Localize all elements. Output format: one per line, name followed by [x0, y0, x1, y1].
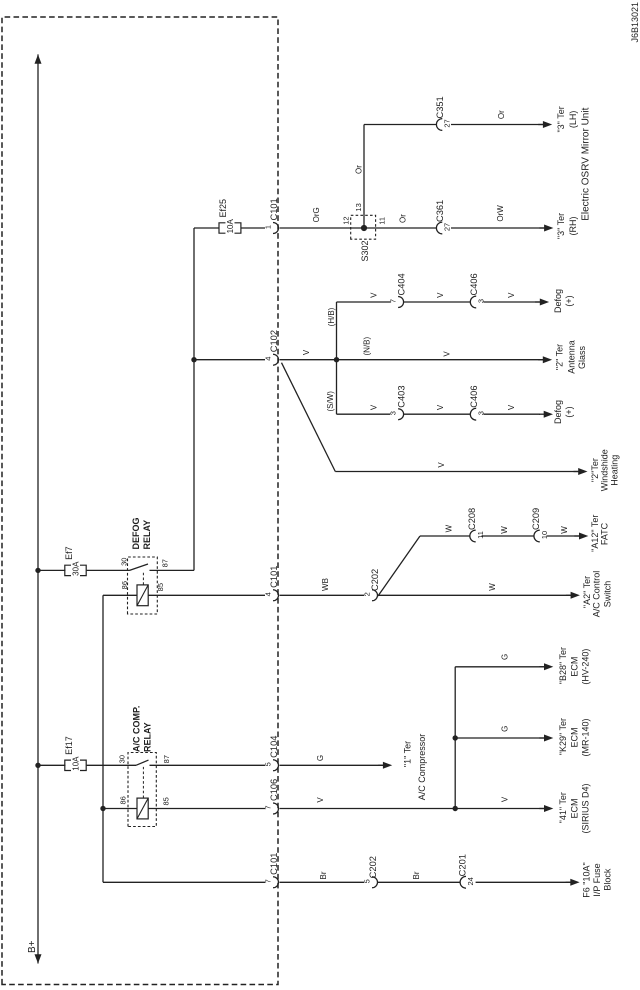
- svg-text:V: V: [500, 796, 509, 802]
- svg-text:5: 5: [363, 879, 372, 883]
- svg-text:Defog: Defog: [553, 289, 563, 313]
- svg-text:(LH): (LH): [568, 111, 578, 129]
- svg-text:Ef17: Ef17: [64, 736, 74, 755]
- svg-text:C361: C361: [435, 200, 445, 222]
- svg-text:"K29" Ter: "K29" Ter: [558, 718, 568, 755]
- svg-text:Windshide: Windshide: [600, 449, 610, 491]
- svg-text:4: 4: [264, 592, 273, 596]
- svg-text:30: 30: [118, 755, 127, 763]
- svg-text:V: V: [443, 351, 452, 357]
- svg-text:"3" Ter: "3" Ter: [556, 213, 566, 239]
- svg-text:RELAY: RELAY: [143, 722, 153, 752]
- svg-text:V: V: [370, 292, 379, 298]
- svg-text:Br: Br: [319, 871, 328, 879]
- svg-text:86: 86: [119, 796, 128, 804]
- svg-text:C404: C404: [396, 273, 406, 295]
- svg-text:W: W: [500, 526, 509, 534]
- svg-text:7: 7: [389, 299, 398, 303]
- svg-text:"2" Ter: "2" Ter: [555, 344, 565, 370]
- svg-text:V: V: [436, 404, 445, 410]
- svg-text:ECM: ECM: [570, 799, 580, 819]
- svg-text:(H/B): (H/B): [327, 307, 336, 326]
- svg-text:V: V: [507, 292, 516, 298]
- svg-text:1: 1: [264, 225, 273, 229]
- svg-text:G: G: [501, 654, 510, 660]
- svg-text:(N/B): (N/B): [362, 337, 371, 356]
- svg-text:10A: 10A: [226, 219, 235, 234]
- svg-text:C101: C101: [269, 853, 279, 875]
- svg-text:Heating: Heating: [609, 455, 619, 486]
- svg-text:Block: Block: [603, 868, 613, 891]
- svg-text:Ef7: Ef7: [64, 546, 74, 560]
- svg-text:"A2" Ter: "A2" Ter: [582, 576, 592, 608]
- svg-text:DEFOG: DEFOG: [131, 517, 141, 549]
- svg-text:13: 13: [354, 203, 363, 211]
- svg-text:ECM: ECM: [570, 728, 580, 748]
- svg-text:C351: C351: [435, 96, 445, 118]
- svg-text:V: V: [316, 797, 325, 803]
- svg-text:OrG: OrG: [312, 207, 321, 222]
- svg-text:W: W: [560, 526, 569, 534]
- svg-text:Ef25: Ef25: [218, 199, 228, 218]
- svg-text:C201: C201: [458, 854, 468, 876]
- svg-text:RELAY: RELAY: [142, 520, 152, 550]
- svg-text:5: 5: [264, 762, 273, 766]
- svg-text:V: V: [370, 404, 379, 410]
- svg-text:Defog: Defog: [553, 400, 563, 424]
- svg-text:(MR-140): (MR-140): [581, 718, 591, 756]
- svg-text:WB: WB: [321, 578, 330, 591]
- svg-text:C406: C406: [469, 273, 479, 295]
- svg-text:C208: C208: [467, 508, 477, 530]
- svg-text:2: 2: [363, 592, 372, 596]
- svg-text:W: W: [488, 583, 497, 591]
- svg-text:Or: Or: [497, 110, 506, 119]
- svg-text:J6B13021: J6B13021: [630, 2, 640, 43]
- svg-text:"B28" Ter: "B28" Ter: [558, 647, 568, 684]
- svg-text:C102: C102: [269, 330, 279, 352]
- svg-text:(+): (+): [564, 295, 574, 306]
- svg-text:A/C COMP.: A/C COMP.: [132, 706, 142, 752]
- svg-text:Glass: Glass: [577, 346, 587, 370]
- svg-text:C202: C202: [368, 856, 378, 878]
- svg-text:C104: C104: [269, 736, 279, 758]
- svg-text:C101: C101: [269, 198, 279, 220]
- svg-text:OrW: OrW: [496, 205, 505, 222]
- svg-text:"3" Ter: "3" Ter: [556, 106, 566, 132]
- svg-text:G: G: [501, 726, 510, 732]
- svg-text:FATC: FATC: [600, 522, 610, 545]
- svg-text:7: 7: [264, 879, 273, 883]
- svg-text:85: 85: [162, 797, 171, 805]
- svg-text:(+): (+): [564, 406, 574, 417]
- svg-text:12: 12: [342, 216, 351, 224]
- svg-text:A/C Compressor: A/C Compressor: [417, 734, 427, 801]
- svg-text:Switch: Switch: [602, 581, 612, 608]
- svg-text:Antenna: Antenna: [566, 340, 576, 374]
- svg-text:C406: C406: [469, 385, 479, 407]
- svg-text:ECM: ECM: [570, 657, 580, 677]
- svg-text:11: 11: [476, 531, 485, 539]
- svg-text:I/P Fuse: I/P Fuse: [592, 863, 602, 896]
- svg-text:(SIRIUS D4): (SIRIUS D4): [581, 783, 591, 833]
- svg-text:Or: Or: [399, 214, 408, 223]
- svg-text:Br: Br: [412, 871, 421, 879]
- svg-text:C403: C403: [396, 385, 406, 407]
- svg-text:V: V: [302, 349, 311, 355]
- svg-text:"1" Ter: "1" Ter: [403, 741, 413, 767]
- svg-text:W: W: [445, 524, 454, 532]
- svg-text:(HV-240): (HV-240): [581, 649, 591, 685]
- svg-text:10: 10: [540, 531, 549, 539]
- svg-text:(RH): (RH): [568, 217, 578, 236]
- svg-text:"A12" Ter: "A12" Ter: [590, 515, 600, 552]
- svg-text:G: G: [316, 755, 325, 761]
- svg-text:Electric OSRV Mirror Unit: Electric OSRV Mirror Unit: [581, 107, 592, 220]
- svg-text:87: 87: [161, 559, 170, 567]
- svg-text:B+: B+: [27, 940, 38, 953]
- svg-text:V: V: [507, 404, 516, 410]
- svg-text:V: V: [436, 292, 445, 298]
- svg-text:11: 11: [378, 217, 387, 225]
- svg-text:S302: S302: [360, 240, 370, 261]
- svg-text:7: 7: [264, 805, 273, 809]
- svg-text:24: 24: [466, 877, 475, 885]
- svg-text:87: 87: [162, 755, 171, 763]
- svg-text:C202: C202: [370, 569, 380, 591]
- svg-text:27: 27: [442, 223, 451, 231]
- svg-text:V: V: [437, 462, 446, 468]
- svg-text:C209: C209: [531, 508, 541, 530]
- svg-text:30A: 30A: [72, 561, 81, 576]
- svg-text:"41" Ter: "41" Ter: [558, 792, 568, 823]
- svg-text:10A: 10A: [72, 756, 81, 771]
- svg-text:27: 27: [442, 119, 451, 127]
- svg-text:3: 3: [389, 411, 398, 415]
- svg-text:F6 "10A": F6 "10A": [581, 862, 591, 897]
- svg-text:(S/W): (S/W): [326, 391, 335, 412]
- svg-text:C101: C101: [269, 566, 279, 588]
- svg-text:C106: C106: [269, 779, 279, 801]
- svg-text:A/C Control: A/C Control: [592, 571, 602, 618]
- svg-text:Or: Or: [355, 165, 364, 174]
- svg-text:4: 4: [264, 357, 273, 361]
